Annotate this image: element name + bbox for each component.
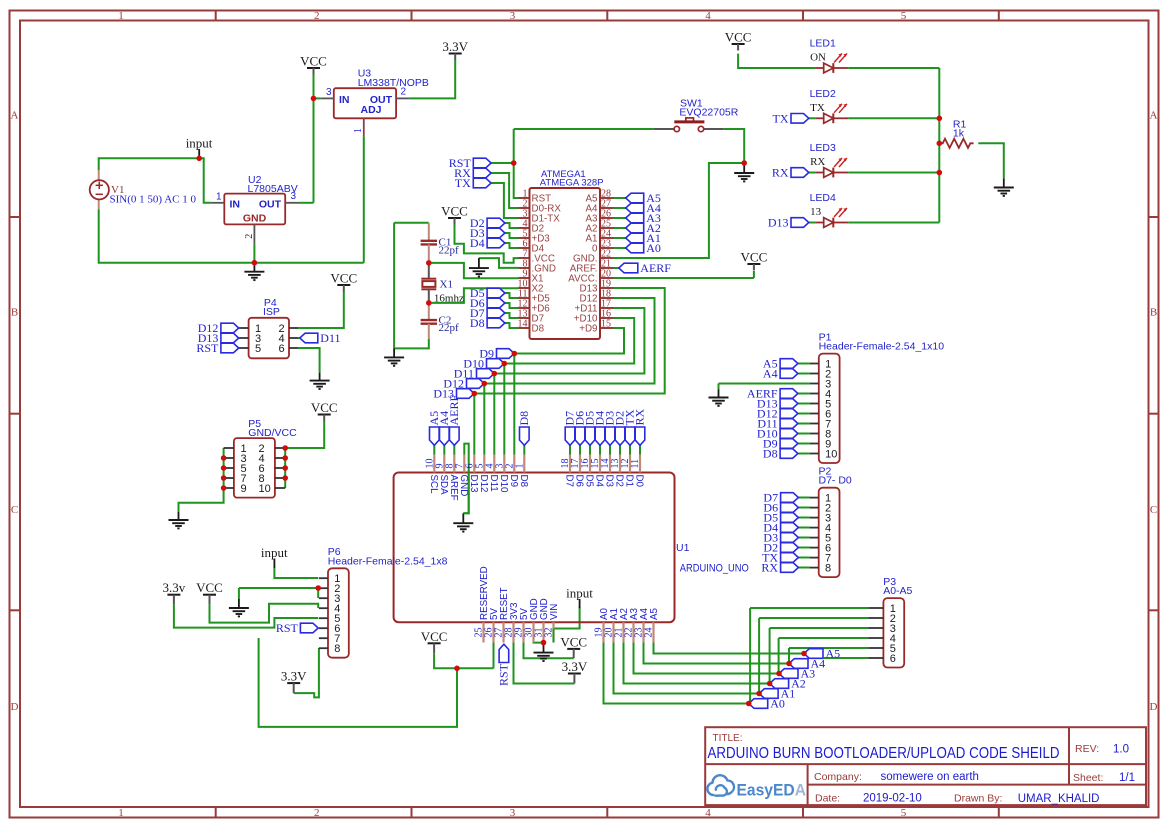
svg-text:TX: TX bbox=[455, 176, 471, 190]
svg-text:REV:: REV: bbox=[1075, 743, 1099, 755]
svg-text:5: 5 bbox=[901, 807, 907, 819]
svg-text:D8: D8 bbox=[470, 316, 485, 330]
svg-text:1: 1 bbox=[118, 807, 124, 819]
svg-text:ISP: ISP bbox=[263, 306, 280, 318]
svg-text:VCC: VCC bbox=[421, 629, 448, 644]
svg-text:11: 11 bbox=[630, 459, 641, 469]
svg-text:ARDUINO BURN BOOTLOADER/UPLOAD: ARDUINO BURN BOOTLOADER/UPLOAD CODE SHEI… bbox=[708, 745, 1060, 762]
svg-text:AREF: AREF bbox=[448, 475, 459, 501]
svg-text:15: 15 bbox=[601, 319, 611, 330]
svg-text:A: A bbox=[1150, 110, 1158, 122]
svg-text:3: 3 bbox=[510, 10, 516, 22]
svg-text:B: B bbox=[11, 307, 18, 319]
svg-text:D6: D6 bbox=[574, 475, 585, 488]
svg-text:D: D bbox=[1150, 701, 1158, 713]
svg-text:input: input bbox=[261, 545, 288, 560]
svg-text:2: 2 bbox=[244, 234, 255, 239]
svg-text:5: 5 bbox=[255, 343, 261, 355]
svg-text:TITLE:: TITLE: bbox=[713, 733, 743, 744]
svg-text:SDA: SDA bbox=[438, 475, 449, 496]
svg-text:C: C bbox=[1150, 504, 1157, 516]
svg-text:10: 10 bbox=[825, 449, 837, 461]
svg-text:D: D bbox=[11, 701, 19, 713]
svg-text:RST: RST bbox=[496, 663, 510, 686]
svg-text:5: 5 bbox=[901, 10, 907, 22]
svg-text:3: 3 bbox=[291, 191, 297, 202]
svg-text:EVQ22705R: EVQ22705R bbox=[679, 107, 738, 119]
svg-text:RX: RX bbox=[810, 156, 825, 168]
svg-text:D8: D8 bbox=[517, 411, 531, 426]
svg-text:D8: D8 bbox=[763, 447, 778, 461]
svg-text:C: C bbox=[11, 504, 18, 516]
svg-text:D8: D8 bbox=[532, 324, 545, 335]
svg-text:SIN(0 1 50) AC 1 0: SIN(0 1 50) AC 1 0 bbox=[110, 194, 197, 206]
svg-text:input: input bbox=[566, 586, 593, 601]
svg-text:EasyEDA: EasyEDA bbox=[737, 781, 807, 800]
svg-text:6: 6 bbox=[279, 343, 285, 355]
svg-text:D3: D3 bbox=[604, 475, 615, 488]
svg-text:2019-02-10: 2019-02-10 bbox=[863, 793, 922, 805]
svg-text:6: 6 bbox=[890, 653, 896, 665]
svg-text:3.3V: 3.3V bbox=[562, 659, 588, 674]
svg-text:Sheet:: Sheet: bbox=[1073, 772, 1103, 784]
svg-text:RX: RX bbox=[633, 408, 647, 425]
svg-text:16mhz: 16mhz bbox=[434, 292, 464, 304]
svg-text:OUT: OUT bbox=[259, 199, 282, 211]
svg-text:somewere on earth: somewere on earth bbox=[881, 771, 979, 783]
svg-text:A0-A5: A0-A5 bbox=[883, 585, 912, 597]
svg-text:2: 2 bbox=[314, 807, 320, 819]
svg-text:ARDUINO_UNO: ARDUINO_UNO bbox=[680, 563, 749, 575]
svg-text:24: 24 bbox=[644, 628, 655, 638]
svg-text:UMAR_KHALID: UMAR_KHALID bbox=[1018, 793, 1100, 805]
svg-text:TX: TX bbox=[810, 102, 825, 114]
svg-text:A4: A4 bbox=[763, 367, 778, 381]
svg-text:U1: U1 bbox=[676, 542, 690, 554]
svg-text:Drawn By:: Drawn By: bbox=[954, 793, 1002, 805]
svg-text:LED1: LED1 bbox=[810, 38, 836, 50]
svg-text:VCC: VCC bbox=[560, 634, 587, 649]
svg-text:1: 1 bbox=[118, 10, 124, 22]
svg-text:VCC: VCC bbox=[300, 54, 327, 69]
svg-text:1k: 1k bbox=[953, 127, 965, 139]
svg-text:LED4: LED4 bbox=[810, 192, 836, 204]
svg-text:D7: D7 bbox=[564, 475, 575, 488]
svg-text:D7- D0: D7- D0 bbox=[819, 475, 852, 487]
svg-text:A0: A0 bbox=[646, 241, 661, 255]
svg-text:AERF: AERF bbox=[640, 261, 671, 275]
svg-text:RX: RX bbox=[761, 561, 778, 575]
svg-text:22pf: 22pf bbox=[439, 322, 460, 334]
svg-text:D5: D5 bbox=[584, 475, 595, 488]
svg-text:IN: IN bbox=[339, 94, 350, 106]
svg-text:8: 8 bbox=[825, 563, 831, 575]
svg-text:AERF: AERF bbox=[447, 395, 461, 426]
svg-text:D11: D11 bbox=[488, 475, 499, 492]
svg-text:14: 14 bbox=[518, 319, 528, 330]
svg-text:RX: RX bbox=[772, 166, 789, 180]
svg-text:D1: D1 bbox=[624, 475, 635, 488]
svg-text:13: 13 bbox=[810, 206, 822, 218]
svg-text:D4: D4 bbox=[594, 475, 605, 488]
svg-text:4: 4 bbox=[705, 10, 711, 22]
svg-text:D8: D8 bbox=[518, 475, 529, 488]
svg-text:Company:: Company: bbox=[814, 771, 862, 783]
svg-text:2: 2 bbox=[401, 87, 407, 98]
svg-text:D2: D2 bbox=[614, 475, 625, 488]
svg-text:D4: D4 bbox=[470, 236, 485, 250]
svg-text:1: 1 bbox=[353, 128, 364, 133]
svg-text:VCC: VCC bbox=[441, 204, 468, 219]
svg-text:+D9: +D9 bbox=[579, 324, 597, 335]
svg-text:2: 2 bbox=[314, 10, 320, 22]
svg-text:Date:: Date: bbox=[815, 793, 840, 805]
svg-text:GND: GND bbox=[243, 213, 267, 225]
svg-text:3.3V: 3.3V bbox=[281, 669, 307, 684]
svg-text:RST: RST bbox=[276, 621, 299, 635]
svg-text:ATMEGA 328P: ATMEGA 328P bbox=[540, 177, 604, 188]
svg-text:SCL: SCL bbox=[428, 475, 439, 495]
svg-text:TX: TX bbox=[773, 111, 789, 125]
svg-text:22pf: 22pf bbox=[439, 244, 460, 256]
svg-text:D11: D11 bbox=[320, 331, 340, 345]
svg-text:D13: D13 bbox=[768, 216, 789, 230]
svg-text:VCC: VCC bbox=[330, 271, 357, 286]
svg-text:1: 1 bbox=[216, 192, 222, 203]
svg-text:B: B bbox=[1150, 307, 1157, 319]
svg-text:VIN: VIN bbox=[549, 604, 560, 620]
svg-text:LED2: LED2 bbox=[810, 88, 836, 100]
svg-text:D12: D12 bbox=[478, 475, 489, 493]
svg-text:A5: A5 bbox=[649, 607, 660, 620]
svg-text:3: 3 bbox=[326, 87, 332, 98]
svg-text:10: 10 bbox=[259, 483, 271, 495]
svg-text:VCC: VCC bbox=[311, 400, 338, 415]
svg-text:VCC: VCC bbox=[725, 30, 752, 45]
svg-text:VCC: VCC bbox=[196, 580, 223, 595]
svg-text:1: 1 bbox=[514, 464, 525, 469]
svg-text:1.0: 1.0 bbox=[1113, 744, 1129, 756]
svg-text:8: 8 bbox=[334, 643, 340, 655]
svg-text:A: A bbox=[11, 110, 19, 122]
svg-text:Header-Female-2.54_1x8: Header-Female-2.54_1x8 bbox=[328, 555, 448, 567]
svg-text:D10: D10 bbox=[498, 475, 509, 494]
svg-text:D9: D9 bbox=[508, 475, 519, 488]
svg-text:Header-Female-2.54_1x10: Header-Female-2.54_1x10 bbox=[819, 341, 945, 353]
svg-text:3.3v: 3.3v bbox=[163, 580, 186, 595]
svg-text:3.3V: 3.3V bbox=[442, 39, 468, 54]
svg-text:9: 9 bbox=[241, 483, 247, 495]
svg-text:4: 4 bbox=[705, 807, 711, 819]
svg-text:RST: RST bbox=[196, 341, 219, 355]
svg-text:1/1: 1/1 bbox=[1119, 772, 1135, 784]
svg-text:LED3: LED3 bbox=[810, 142, 836, 154]
svg-text:IN: IN bbox=[230, 199, 241, 211]
svg-text:D0: D0 bbox=[634, 475, 645, 488]
svg-text:ADJ: ADJ bbox=[360, 104, 381, 116]
svg-text:VCC: VCC bbox=[741, 250, 768, 265]
svg-text:input: input bbox=[186, 136, 213, 151]
svg-text:ON: ON bbox=[810, 52, 826, 64]
svg-text:A5: A5 bbox=[826, 647, 841, 661]
svg-text:GND/VCC: GND/VCC bbox=[248, 427, 297, 439]
svg-text:LM338T/NOPB: LM338T/NOPB bbox=[358, 77, 429, 89]
svg-text:X1: X1 bbox=[440, 278, 453, 290]
svg-text:GND: GND bbox=[458, 475, 469, 497]
svg-text:3: 3 bbox=[510, 807, 516, 819]
